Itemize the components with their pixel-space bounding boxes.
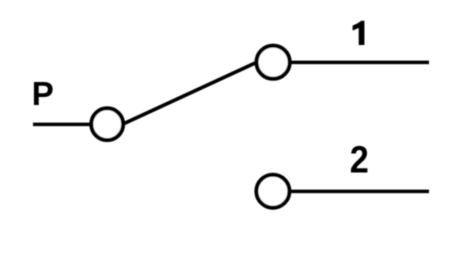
node 2 bbox=[256, 175, 289, 208]
label 1 bbox=[353, 21, 365, 45]
wire bbox=[273, 190, 429, 194]
wire bbox=[33, 123, 107, 127]
wire bbox=[124, 63, 256, 124]
node 1 bbox=[257, 46, 290, 79]
svg-text:P: P bbox=[32, 75, 54, 112]
node P bbox=[91, 108, 123, 140]
svg-text:2: 2 bbox=[350, 138, 369, 181]
wire bbox=[273, 61, 429, 65]
